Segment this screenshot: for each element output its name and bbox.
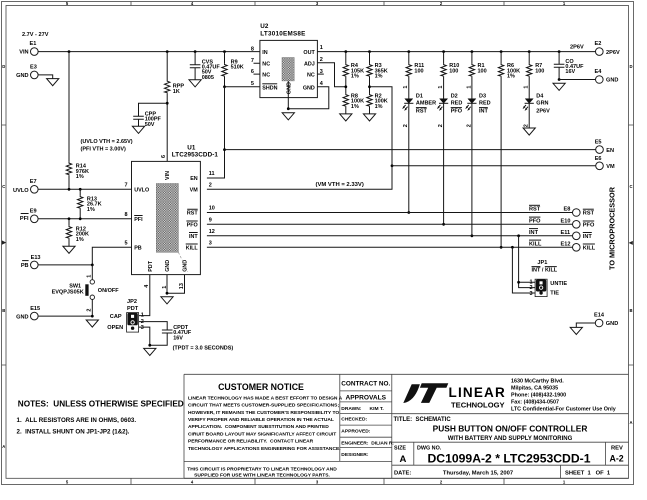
- svg-text:DC1099A-2 * LTC2953CDD-1: DC1099A-2 * LTC2953CDD-1: [427, 451, 590, 465]
- node D1-RST: [407, 211, 410, 214]
- svg-text:GND: GND: [303, 85, 315, 91]
- resistor R4: [343, 63, 364, 79]
- resistor R3: [367, 63, 388, 79]
- svg-text:7: 7: [251, 58, 254, 64]
- svg-text:VERIFY PROPER AND RELIABLE OPE: VERIFY PROPER AND RELIABLE OPERATION IN …: [188, 417, 334, 423]
- svg-text:8: 8: [251, 46, 254, 52]
- node CO bottom: [558, 78, 561, 81]
- svg-text:ON/OFF: ON/OFF: [98, 288, 119, 294]
- svg-text:CONTRACT NO.: CONTRACT NO.: [341, 381, 390, 388]
- svg-text:PFO: PFO: [451, 108, 463, 114]
- svg-text:11: 11: [209, 171, 215, 177]
- approvals column: [340, 381, 395, 459]
- wire rail to R9: [224, 52, 226, 64]
- wire JP2 pin3 down: [139, 327, 150, 345]
- svg-text:GND: GND: [165, 260, 171, 272]
- U2 exposed pad: [282, 58, 294, 81]
- svg-text:SW1: SW1: [69, 283, 81, 289]
- ground at U2: [282, 113, 294, 120]
- svg-text:3: 3: [141, 325, 144, 331]
- svg-text:CUSTOMER NOTICE: CUSTOMER NOTICE: [218, 382, 304, 392]
- terminal E10 PFO: [561, 219, 595, 229]
- svg-text:SHDN: SHDN: [262, 85, 277, 91]
- wire rail to R4: [345, 52, 347, 64]
- svg-text:APPROVALS: APPROVALS: [346, 395, 387, 402]
- svg-text:LINEAR: LINEAR: [449, 385, 506, 400]
- Linear Technology logo: [403, 383, 506, 409]
- label INT net: [529, 229, 539, 236]
- svg-text:5: 5: [251, 81, 254, 87]
- svg-text:PUSH BUTTON ON/OFF CONTROLLER: PUSH BUTTON ON/OFF CONTROLLER: [433, 423, 588, 433]
- svg-text:1: 1: [87, 275, 93, 278]
- wire SW1 to GND line: [91, 299, 93, 316]
- zone numbers bottom: [66, 479, 566, 484]
- svg-text:DATE:: DATE:: [394, 471, 411, 477]
- U2 SHDN overbar: [262, 83, 277, 85]
- terminal E3 GND: [16, 64, 38, 79]
- svg-text:1630 McCarthy Blvd.: 1630 McCarthy Blvd.: [511, 379, 564, 385]
- svg-text:1%: 1%: [375, 74, 383, 80]
- svg-text:GND: GND: [606, 321, 618, 327]
- svg-text:RED: RED: [479, 101, 491, 107]
- svg-text:RST: RST: [529, 207, 541, 213]
- node SHDN junction: [223, 85, 226, 88]
- U1 pin names right: [186, 176, 199, 251]
- svg-text:1K: 1K: [173, 89, 180, 95]
- ground at CPDT: [144, 348, 156, 355]
- wire D1 to RST line: [408, 103, 410, 212]
- svg-text:E15: E15: [30, 306, 40, 312]
- svg-text:KILL: KILL: [186, 246, 199, 252]
- U1 pin numbers: [125, 183, 128, 247]
- svg-text:8: 8: [125, 212, 128, 218]
- node R10 top: [442, 50, 445, 53]
- wire R14 to UVLO line: [68, 175, 70, 189]
- svg-text:RST: RST: [416, 108, 428, 114]
- resistor R13: [78, 195, 102, 212]
- zone numbers top: [66, 1, 566, 6]
- svg-text:12: 12: [209, 229, 215, 235]
- resistor R2: [367, 93, 388, 109]
- wire VIN rail E1 to U2 pin8: [38, 51, 260, 53]
- svg-text:CIRUIT BOARD LAYOUT MAY SIGNIF: CIRUIT BOARD LAYOUT MAY SIGNIFICANTLY AF…: [188, 431, 336, 437]
- svg-text:PFI: PFI: [20, 216, 29, 222]
- wire R1 to D3: [471, 77, 473, 99]
- wire rail to R10: [443, 52, 445, 64]
- wire R9 to SHDN node: [224, 77, 226, 87]
- svg-text:INT: INT: [189, 234, 198, 240]
- svg-text:E6: E6: [595, 156, 602, 162]
- wire D3 to INT line: [471, 103, 473, 236]
- svg-text:1: 1: [438, 86, 444, 89]
- svg-text:3: 3: [320, 69, 323, 75]
- wire R2 to ground: [369, 107, 371, 114]
- svg-text:LT3010EMS8E: LT3010EMS8E: [260, 31, 305, 38]
- node CO top: [558, 50, 561, 53]
- svg-text:JP1: JP1: [537, 260, 547, 266]
- svg-text:A-2: A-2: [610, 453, 624, 463]
- node U2 ground junction: [287, 107, 290, 110]
- wire U2 pad to ground: [287, 81, 289, 109]
- wire D4 to ground: [528, 103, 530, 128]
- label RST net: [529, 205, 541, 212]
- node VM divider: [368, 85, 371, 88]
- svg-text:D3: D3: [479, 93, 486, 99]
- svg-text:KILL: KILL: [583, 245, 596, 251]
- terminal E8 RST: [564, 207, 595, 217]
- jumper JP1 INT/KILL: [532, 260, 568, 296]
- capacitor CVS: [190, 59, 221, 81]
- wire R13 to PFI line: [79, 189, 81, 219]
- wire D2 to PFO line: [443, 103, 445, 224]
- U1 right overbars RST PFO INT KILL: [186, 209, 198, 244]
- wire PFO line: [207, 223, 573, 225]
- svg-text:LTC Confidential-For Customer: LTC Confidential-For Customer Use Only: [511, 407, 616, 413]
- ground at CPP: [132, 126, 144, 133]
- wire R10 to D2: [443, 77, 445, 99]
- svg-text:PB: PB: [21, 263, 29, 269]
- svg-text:1. ALL RESISTORS ARE IN OHMS,: 1. ALL RESISTORS ARE IN OHMS, 0603.: [17, 417, 137, 424]
- node RPP top: [166, 50, 169, 53]
- wire VM line to E6: [392, 165, 596, 167]
- svg-text:DRAWN: KIM T.: DRAWN: KIM T.: [341, 406, 384, 412]
- wire INT line: [207, 235, 573, 237]
- svg-text:JP2: JP2: [127, 299, 137, 305]
- wire rail to R3: [369, 52, 371, 64]
- svg-text:NC: NC: [262, 72, 270, 78]
- svg-text:VIN: VIN: [165, 171, 171, 180]
- wire E3 to ground: [38, 75, 53, 79]
- capacitor CPDT: [162, 325, 192, 341]
- svg-text:Phone: (408)432-1900: Phone: (408)432-1900: [511, 393, 566, 399]
- svg-text:APPROVED:: APPROVED:: [341, 428, 370, 434]
- svg-text:E3: E3: [30, 64, 37, 70]
- wire R3 to node: [369, 77, 371, 94]
- svg-text:E9: E9: [30, 209, 37, 215]
- wire VM pin line: [207, 166, 392, 190]
- U2 pin numbers right: [320, 45, 324, 87]
- svg-text:ADJ: ADJ: [304, 62, 315, 68]
- label PFO net: [529, 217, 541, 224]
- resistor R8: [343, 93, 364, 109]
- ground at R2: [363, 114, 375, 121]
- svg-text:UVLO: UVLO: [134, 188, 149, 194]
- resistor R9: [222, 59, 244, 76]
- wire SHDN to U2 pin5: [225, 86, 260, 88]
- LED D3 RED: [466, 93, 490, 114]
- node KILL riser: [511, 246, 514, 249]
- svg-text:D1: D1: [416, 93, 423, 99]
- svg-text:16V: 16V: [173, 335, 183, 341]
- svg-text:RED: RED: [451, 101, 463, 107]
- resistor R11: [406, 63, 424, 77]
- title block outline: [184, 374, 629, 478]
- node R13-PFI: [79, 217, 82, 220]
- wire rail to R7: [528, 52, 530, 64]
- svg-text:E5: E5: [595, 140, 602, 146]
- ground at CVS: [189, 80, 201, 87]
- wire U1 GND pins to ground: [167, 275, 185, 294]
- svg-text:OUT: OUT: [303, 50, 315, 56]
- node R1 top: [471, 50, 474, 53]
- wire E13 line: [38, 264, 92, 266]
- svg-text:510K: 510K: [231, 64, 244, 70]
- svg-text:(TPDT = 3.0 SECONDS): (TPDT = 3.0 SECONDS): [173, 345, 234, 351]
- terminal E11 INT: [561, 230, 593, 240]
- svg-text:1%: 1%: [375, 104, 383, 110]
- svg-text:1: 1: [320, 45, 323, 51]
- wire rail to CO: [558, 52, 560, 65]
- svg-text:KILL: KILL: [529, 242, 542, 248]
- svg-text:NC: NC: [307, 72, 315, 78]
- wire PB pin to switch column: [92, 247, 131, 265]
- svg-text:1%: 1%: [351, 104, 359, 110]
- svg-text:Thursday, March 15, 2007: Thursday, March 15, 2007: [443, 471, 513, 477]
- svg-text:LTC2953CDD-1: LTC2953CDD-1: [172, 151, 219, 158]
- svg-text:INT: INT: [479, 108, 489, 114]
- wire R6 to KILL line: [500, 77, 502, 248]
- node R6 top: [500, 50, 503, 53]
- svg-text:E12: E12: [561, 242, 571, 248]
- ground at R8: [340, 114, 352, 121]
- svg-text:SIZE: SIZE: [394, 445, 406, 451]
- wire PFI line E9 to U1: [38, 218, 131, 220]
- svg-text:U1: U1: [187, 144, 196, 151]
- node CPP branch: [166, 102, 169, 105]
- svg-text:E7: E7: [30, 179, 37, 185]
- svg-text:1: 1: [141, 312, 144, 318]
- wire INT riser to JP1: [519, 236, 536, 288]
- node CVS top: [194, 50, 197, 53]
- U1 exposed pad: [156, 184, 178, 253]
- zone letters left: [2, 64, 5, 449]
- wire CPP to ground: [138, 119, 140, 126]
- U1 pad dashed tie: [178, 252, 187, 271]
- wire rail to R11: [408, 52, 410, 64]
- svg-text:2: 2: [209, 183, 212, 189]
- svg-text:C: C: [2, 184, 5, 189]
- svg-text:THIS CIRCUIT IS PROPRIETARY TO: THIS CIRCUIT IS PROPRIETARY TO LINEAR TE…: [187, 466, 337, 472]
- wire R7 to D4: [528, 77, 530, 99]
- svg-text:D2: D2: [451, 93, 458, 99]
- ground at E3: [47, 79, 59, 86]
- node R12 top: [68, 217, 71, 220]
- customer notice box: [187, 382, 342, 479]
- svg-text:A: A: [2, 444, 5, 449]
- node R4 top: [344, 50, 347, 53]
- svg-text:GND: GND: [16, 73, 28, 79]
- node R3 top: [368, 50, 371, 53]
- wire rail to CVS: [194, 52, 196, 65]
- label KILL net: [529, 240, 542, 247]
- resistor R7: [527, 63, 545, 77]
- svg-text:D4: D4: [536, 93, 544, 99]
- resistor R10: [441, 63, 459, 77]
- svg-text:U2: U2: [260, 23, 269, 30]
- terminal E4 GND: [595, 69, 619, 84]
- terminal E1 VIN: [19, 41, 38, 55]
- wire JP2 pin2 to CPDT: [139, 322, 168, 330]
- op-amp U1 LTC2953CDD-1 body: [132, 144, 219, 274]
- svg-text:GND: GND: [16, 314, 28, 320]
- switch SW1 EVQPJS05K: [52, 280, 120, 300]
- ground at D4: [523, 128, 535, 135]
- wire R8 to ground: [345, 107, 347, 114]
- svg-text:TITLE: SCHEMATIC: TITLE: SCHEMATIC: [394, 417, 452, 423]
- wire CVS to ground: [194, 68, 196, 80]
- svg-text:C: C: [629, 184, 632, 189]
- svg-text:PDT: PDT: [148, 260, 154, 271]
- terminal E5 EN: [595, 140, 614, 154]
- LED D1 AMBER: [403, 93, 436, 114]
- wire CO to E4 line: [558, 67, 560, 79]
- svg-text:INT: INT: [529, 230, 539, 236]
- wire R4 to node: [345, 77, 347, 94]
- svg-text:REV: REV: [611, 446, 623, 452]
- svg-text:(UVLO VTH = 2.65V): (UVLO VTH = 2.65V): [81, 139, 133, 145]
- node R14-UVLO: [68, 188, 71, 191]
- U2 pin names right: [303, 50, 316, 91]
- terminal E2 2P6V: [595, 41, 620, 56]
- svg-text:INT / KILL: INT / KILL: [532, 268, 558, 274]
- svg-text:APPLICATION. COMPONENT SUBSTI: APPLICATION. COMPONENT SUBSTITUTION AND …: [188, 424, 329, 430]
- ground at E14: [570, 327, 582, 334]
- wire VM riser from divider: [370, 87, 393, 166]
- wire to CPP: [139, 103, 168, 116]
- wire UVLO line E7 to U1: [38, 188, 131, 190]
- U1 pin names left: [134, 188, 149, 252]
- resistor R12: [66, 225, 89, 242]
- svg-text:RST: RST: [187, 211, 198, 217]
- svg-text:1%: 1%: [351, 74, 359, 80]
- wire 2P6V rail U2 OUT to E2: [317, 51, 595, 53]
- svg-text:TECHNOLOGY APPLICATIONS ENGINE: TECHNOLOGY APPLICATIONS ENGINEERING FOR …: [188, 446, 341, 452]
- wire R11 to D1: [408, 77, 410, 99]
- node JP1 pin1/2 tie: [517, 281, 520, 284]
- svg-text:0805: 0805: [202, 75, 214, 81]
- node D3-INT: [471, 234, 474, 237]
- svg-text:2: 2: [524, 124, 530, 127]
- svg-text:10: 10: [209, 206, 215, 212]
- svg-text:WITH BATTERY AND SUPPLY MONITO: WITH BATTERY AND SUPPLY MONITORING: [448, 436, 573, 442]
- svg-text:CAP: CAP: [110, 314, 122, 320]
- svg-text:2P6V: 2P6V: [606, 50, 620, 56]
- svg-text:2. INSTALL SHUNT ON JP1-JP2 (: 2. INSTALL SHUNT ON JP1-JP2 (1&2).: [17, 428, 130, 435]
- svg-text:3: 3: [530, 291, 533, 297]
- node R11 top: [407, 50, 410, 53]
- svg-text:E8: E8: [564, 207, 571, 213]
- wire E14 to ground: [576, 323, 595, 327]
- wire EN line to E5: [225, 149, 596, 151]
- ground at E15: [86, 320, 98, 327]
- svg-text:GND: GND: [287, 82, 293, 94]
- wire RST line: [207, 212, 573, 214]
- U1 pin numbers bottom: [144, 283, 185, 289]
- svg-text:UNTIE: UNTIE: [550, 281, 567, 287]
- svg-text:OPEN: OPEN: [107, 325, 123, 331]
- terminal E15 GND: [16, 306, 40, 320]
- svg-text:E11: E11: [561, 230, 571, 236]
- svg-text:EVQPJS05K: EVQPJS05K: [52, 290, 84, 296]
- svg-text:VIN: VIN: [19, 49, 28, 55]
- svg-text:D: D: [2, 64, 5, 69]
- capacitor CO: [554, 59, 584, 75]
- svg-text:A: A: [629, 420, 632, 425]
- svg-text:GND: GND: [606, 78, 618, 84]
- node R7 top: [528, 50, 531, 53]
- svg-text:9: 9: [209, 218, 212, 224]
- svg-text:CIRCUIT THAT MEETS CUSTOMER-SU: CIRCUIT THAT MEETS CUSTOMER-SUPPLIED SPE…: [188, 403, 339, 409]
- wire KILL riser to JP1 pin3: [512, 247, 535, 293]
- svg-text:16V: 16V: [565, 69, 575, 75]
- svg-text:EN: EN: [606, 148, 614, 154]
- svg-text:2.7V - 27V: 2.7V - 27V: [22, 32, 49, 38]
- zone tick marks top/bottom: [131, 2, 504, 485]
- svg-text:5: 5: [125, 241, 128, 247]
- svg-text:B: B: [2, 308, 5, 313]
- wire E15 line: [38, 315, 92, 317]
- svg-text:Fax: (408)434-0507: Fax: (408)434-0507: [511, 400, 559, 406]
- svg-text:AMBER: AMBER: [416, 101, 436, 107]
- svg-text:RST: RST: [583, 211, 595, 217]
- svg-text:PFO: PFO: [187, 223, 198, 229]
- U2 pin stubs right: [317, 73, 323, 75]
- wire CPDT to ground node: [150, 333, 167, 345]
- svg-text:E13: E13: [31, 255, 41, 261]
- node R6-KILL: [500, 246, 503, 249]
- svg-text:E10: E10: [561, 219, 571, 225]
- capacitor CPP: [133, 111, 161, 127]
- wire VIN down to R14: [68, 52, 70, 162]
- svg-text:PFI: PFI: [134, 217, 143, 223]
- node INT riser: [517, 234, 520, 237]
- svg-text:PB: PB: [134, 246, 142, 252]
- node D2-PFO: [442, 223, 445, 226]
- svg-text:IN: IN: [262, 50, 267, 56]
- svg-text:PFO: PFO: [529, 219, 541, 225]
- svg-text:A: A: [400, 454, 407, 465]
- svg-text:6: 6: [161, 155, 167, 158]
- svg-text:1%: 1%: [507, 74, 515, 80]
- wire to SW1: [91, 265, 93, 280]
- wire rail to RPP: [166, 52, 168, 80]
- svg-text:PFO: PFO: [583, 222, 595, 228]
- resistor R1: [469, 63, 486, 77]
- svg-text:ENGINEER: DILIAN R.: ENGINEER: DILIAN R.: [341, 441, 394, 447]
- terminal E6 VM: [595, 156, 615, 170]
- node VM junction: [391, 164, 394, 167]
- svg-text:7: 7: [125, 183, 128, 189]
- node ADJ divider: [344, 85, 347, 88]
- svg-text:INT: INT: [583, 234, 593, 240]
- svg-text:PERFORMANCE OR RELIABILITY. C: PERFORMANCE OR RELIABILITY. CONTACT LINE…: [188, 439, 314, 445]
- svg-text:HOWEVER, IT REMAINS THE CUSTOM: HOWEVER, IT REMAINS THE CUSTOMER'S RESPO…: [188, 410, 339, 416]
- wire to E4: [559, 79, 595, 81]
- jumper JP2 PDT: [107, 299, 138, 332]
- svg-text:2: 2: [87, 309, 93, 312]
- U1 PFI overbar: [134, 215, 142, 217]
- zone letters right: [629, 64, 632, 425]
- JP1 pin numbers: [530, 279, 533, 297]
- terminal E14 GND: [594, 313, 618, 328]
- svg-text:VM: VM: [606, 164, 615, 170]
- wire U2 GND pin4 routing: [288, 87, 329, 109]
- svg-text:EN: EN: [190, 176, 198, 182]
- ground at R12: [63, 246, 75, 253]
- svg-text:TECHNOLOGY: TECHNOLOGY: [451, 401, 505, 410]
- svg-text:GRN: GRN: [536, 101, 548, 107]
- terminal E9 PFI: [20, 209, 38, 223]
